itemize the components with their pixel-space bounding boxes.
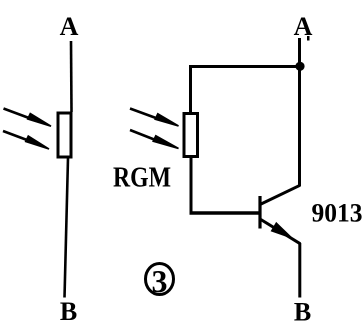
svg-text:RGM: RGM: [113, 163, 171, 194]
svg-text:A: A: [60, 12, 79, 41]
svg-text:B: B: [60, 297, 77, 326]
svg-text:B: B: [294, 298, 311, 327]
svg-text:A: A: [294, 12, 313, 41]
svg-text:9013: 9013: [312, 199, 363, 228]
svg-text:3: 3: [152, 263, 168, 299]
